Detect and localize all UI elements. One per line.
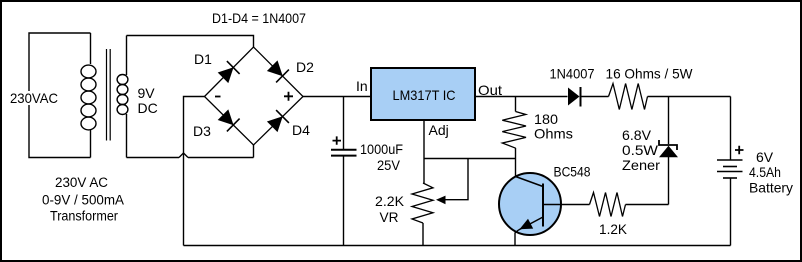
svg-text:VR: VR — [380, 209, 399, 225]
label 230VAC — [8, 90, 60, 106]
transistor Q1 BC548 — [499, 173, 562, 246]
label 2.2K VR — [375, 193, 405, 225]
diode D1 — [218, 61, 240, 83]
svg-text:Battery: Battery — [749, 180, 793, 196]
svg-text:4.5Ah: 4.5Ah — [749, 164, 781, 180]
svg-text:D3: D3 — [193, 123, 211, 139]
svg-text:0.5W: 0.5W — [622, 142, 659, 158]
svg-text:6.8V: 6.8V — [622, 127, 652, 143]
label 6.8V 0.5W Zener — [622, 127, 660, 173]
svg-text:LM317T IC: LM317T IC — [393, 87, 456, 103]
svg-text:1000uF: 1000uF — [360, 141, 403, 157]
svg-text:In: In — [356, 78, 368, 94]
label transformer caption — [42, 175, 124, 224]
svg-text:0-9V / 500mA: 0-9V / 500mA — [42, 193, 124, 208]
label 180 Ohms — [534, 111, 573, 142]
bridge rectifier edges — [205, 47, 304, 145]
svg-text:16 Ohms / 5W: 16 Ohms / 5W — [606, 66, 694, 82]
wire Adj horizontal — [424, 158, 516, 160]
resistor R2 16 Ohms 5W — [609, 84, 648, 110]
svg-text:230VAC: 230VAC — [10, 90, 58, 106]
wire wiper to Adj node — [445, 159, 469, 200]
capacitor C1 1000uF — [331, 97, 357, 246]
wire battery drop — [730, 97, 732, 161]
svg-text:Adj: Adj — [429, 122, 449, 138]
svg-text:9V: 9V — [138, 85, 156, 101]
wire collector drop — [515, 159, 517, 177]
wire base to 1.2K — [562, 204, 590, 206]
label 1000uF 25V — [360, 141, 403, 173]
svg-text:Zener: Zener — [622, 157, 660, 173]
diode D4 — [267, 110, 289, 132]
svg-text:2.2K: 2.2K — [375, 193, 405, 209]
svg-text:Transformer: Transformer — [50, 209, 118, 224]
svg-text:Out: Out — [478, 82, 502, 98]
diode D5 1N4007 — [568, 87, 581, 107]
wire IC Out to diode — [475, 96, 568, 98]
op-amp/regulator U1 LM317T — [371, 68, 475, 120]
svg-text:25V: 25V — [377, 157, 401, 173]
wire bridge minus to bottom rail — [184, 97, 205, 246]
battery BT1 — [717, 146, 744, 246]
transformer core — [107, 49, 111, 141]
svg-text:D1-D4 = 1N4007: D1-D4 = 1N4007 — [212, 10, 306, 26]
svg-text:1.2K: 1.2K — [599, 221, 628, 237]
wire secondary top to bridge — [127, 36, 254, 48]
svg-text:DC: DC — [138, 100, 158, 116]
svg-text:Ohms: Ohms — [534, 126, 573, 142]
wire resistor to battery — [648, 96, 731, 98]
diode D3 — [218, 109, 240, 131]
transformer secondary winding — [117, 36, 128, 158]
node minus — [215, 96, 221, 98]
wire Adj pin down — [423, 120, 425, 183]
wire bottom rail — [184, 245, 731, 247]
svg-text:1N4007: 1N4007 — [550, 66, 595, 82]
node plus — [284, 92, 293, 101]
wire secondary bottom to bridge (with hop at x=183.5) — [127, 145, 254, 158]
wire 1.2K to zener — [626, 204, 669, 206]
AC source box 230VAC — [29, 33, 91, 158]
svg-text:230V AC: 230V AC — [55, 175, 108, 190]
resistor R3 1.2K — [590, 193, 626, 217]
zener diode ZD1 6.8V — [659, 140, 678, 205]
svg-text:D2: D2 — [296, 59, 314, 75]
transformer primary winding — [81, 33, 96, 158]
svg-text:D4: D4 — [292, 122, 310, 138]
svg-text:D1: D1 — [194, 51, 212, 67]
diode D2 — [267, 60, 289, 82]
wire zener branch top — [668, 97, 670, 145]
label 6V 4.5Ah Battery — [749, 149, 793, 196]
svg-text:BC548: BC548 — [554, 164, 591, 180]
label 9V DC — [138, 85, 158, 116]
resistor R1 180 Ohms — [502, 97, 526, 159]
wire diode to resistor — [582, 96, 609, 98]
wire bridge plus to IC In — [303, 96, 371, 98]
svg-text:6V: 6V — [756, 149, 774, 165]
potentiometer VR 2.2K — [412, 183, 446, 246]
